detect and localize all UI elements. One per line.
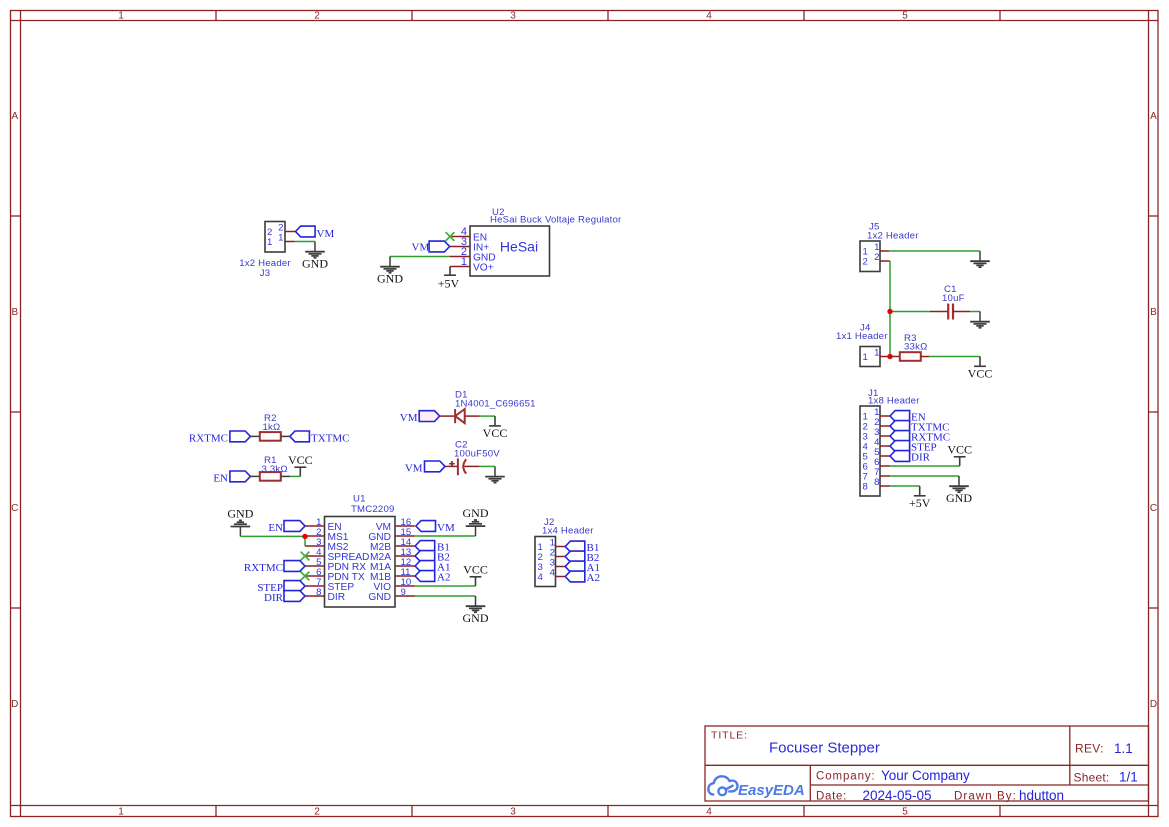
svg-text:DIR: DIR	[911, 451, 931, 463]
svg-text:4: 4	[706, 807, 712, 818]
J5 pin 2 stub	[880, 260, 890, 262]
svg-text:VCC: VCC	[288, 453, 313, 467]
power VCC at U1 VIO	[470, 577, 482, 586]
svg-text:VCC: VCC	[483, 426, 508, 440]
ground at C2	[485, 466, 505, 482]
svg-text:1x8 Header: 1x8 Header	[868, 395, 920, 406]
U1 pin 13 M2A	[395, 555, 415, 557]
net flag STEP at J1 pin 4	[890, 441, 910, 452]
U1 pin 2 MS1	[305, 535, 325, 537]
svg-text:Sheet:: Sheet:	[1074, 770, 1110, 784]
wire R2 to TXTMC	[281, 435, 290, 437]
svg-text:J3: J3	[260, 268, 271, 279]
svg-text:9: 9	[401, 587, 406, 598]
svg-text:HeSai: HeSai	[500, 239, 538, 255]
svg-text:GND: GND	[227, 507, 253, 521]
svg-text:A2: A2	[587, 572, 600, 584]
net flag A1 at J2	[565, 561, 585, 572]
U2 pin 1 VO+	[450, 266, 470, 268]
junction node VM/C1	[887, 309, 892, 314]
svg-text:1/1: 1/1	[1119, 770, 1138, 785]
no-connect X on U2 pin 4	[446, 232, 455, 241]
wire J1 pin6 to VCC	[890, 465, 960, 467]
J2 pin 3	[556, 566, 566, 568]
power VCC at D1	[489, 416, 501, 426]
U1 pin 4 SPREAD	[305, 555, 325, 557]
no-connect X U1 pin4	[301, 552, 310, 561]
J1 pin 6	[880, 465, 890, 467]
wire R1 to VCC	[281, 475, 290, 477]
U1 pin 8 DIR	[305, 595, 325, 597]
D1 symbol	[455, 409, 465, 423]
wire U1 pin9 GND to ground	[414, 595, 475, 597]
svg-text:TITLE:: TITLE:	[711, 730, 748, 742]
U1 pin 6 PDN TX	[305, 575, 325, 577]
svg-text:VO+: VO+	[473, 263, 494, 274]
power VCC at R1	[294, 467, 306, 476]
svg-text:1: 1	[118, 11, 124, 22]
wire junction down to MS2	[304, 536, 306, 546]
svg-text:1x1 Header: 1x1 Header	[836, 331, 888, 342]
svg-text:REV:: REV:	[1075, 742, 1104, 756]
wire R3 to VCC	[929, 356, 980, 358]
net flag B1 at J2	[565, 541, 585, 552]
net flag B1	[415, 541, 435, 552]
svg-text:GND: GND	[368, 592, 391, 603]
C2 negative lead	[464, 465, 479, 467]
net flag RXTMC	[230, 431, 251, 442]
ground at J5 pin1	[970, 251, 990, 267]
net flag A2	[415, 571, 435, 582]
U1 pin 11 M1B	[395, 575, 415, 577]
left ground GND (U1 MS1/MS2)	[231, 520, 251, 536]
J1 pin 1	[880, 415, 890, 417]
wire EN to R1	[250, 475, 259, 477]
svg-text:2: 2	[874, 252, 879, 263]
svg-text:5: 5	[902, 11, 908, 22]
U1 pin 15 GND	[395, 535, 415, 537]
C2 plus sign	[449, 461, 454, 466]
net flag EN at J1 pin 1	[890, 411, 910, 422]
svg-text:C: C	[11, 503, 18, 514]
wire junction to C1	[890, 311, 930, 313]
wire J1 pin7 to GND	[890, 475, 959, 477]
ground GND above U1 pin15	[466, 520, 486, 536]
net flag EN at U1 pin1	[284, 521, 305, 532]
svg-text:GND: GND	[463, 611, 489, 625]
svg-text:5: 5	[902, 807, 908, 818]
svg-text:4: 4	[538, 572, 544, 583]
net flag B2	[415, 551, 435, 562]
ground GND at U2	[380, 257, 400, 273]
net flag STEP at U1 pin7	[284, 581, 305, 592]
U2 pin 2 GND	[450, 256, 470, 258]
svg-text:C: C	[1150, 503, 1157, 514]
J3 pin 2 stub	[285, 231, 296, 233]
net flag RXTMC at U1 pin5	[284, 561, 305, 572]
wire U1 pin10 VIO to VCC	[415, 585, 476, 587]
U1 pin 1 EN	[305, 525, 325, 527]
svg-text:3: 3	[510, 11, 516, 22]
title block	[705, 726, 1149, 801]
svg-text:100uF50V: 100uF50V	[454, 448, 500, 459]
svg-text:Company:: Company:	[816, 771, 876, 783]
ground GND at J1	[949, 476, 969, 492]
wire C2 to GND	[480, 465, 495, 467]
EasyEDA logo	[708, 776, 737, 795]
svg-text:10uF: 10uF	[942, 293, 965, 304]
svg-text:hdutton: hdutton	[1019, 788, 1064, 803]
U1 pin 7 STEP	[305, 585, 325, 587]
svg-text:DIR: DIR	[264, 592, 284, 604]
svg-text:D: D	[1150, 699, 1157, 710]
wire J3 pin1 to GND	[295, 241, 316, 243]
svg-text:1: 1	[267, 237, 272, 248]
C2 positive lead	[445, 465, 457, 467]
J2 pin 1	[556, 546, 566, 548]
svg-text:EN: EN	[268, 522, 283, 534]
svg-text:VM: VM	[405, 462, 423, 474]
net flag A2 at J2	[565, 571, 585, 582]
wire J1 pin8 to +5V	[890, 485, 920, 487]
svg-text:VM: VM	[400, 412, 418, 424]
C2 plates	[457, 458, 459, 475]
svg-text:GND: GND	[377, 272, 403, 286]
U1 pin 3 MS2	[305, 545, 325, 547]
J1 pin 5	[880, 455, 890, 457]
net flag VM at C2	[425, 461, 446, 472]
power VCC at J1	[954, 457, 966, 466]
svg-text:+5V: +5V	[438, 277, 460, 291]
svg-text:EasyEDA: EasyEDA	[738, 782, 805, 799]
svg-text:VM: VM	[412, 242, 430, 254]
junction node MS1	[302, 534, 307, 539]
net flag VM at J3	[296, 226, 316, 237]
ground GND below U1 pin9	[466, 596, 486, 612]
U1 pin 12 M1A	[395, 565, 415, 567]
svg-text:1N4001_C696651: 1N4001_C696651	[455, 399, 536, 410]
svg-text:A: A	[1150, 111, 1157, 122]
J3 pin 1 stub	[285, 241, 295, 243]
J1 pin 2	[880, 425, 890, 427]
svg-text:Focuser Stepper: Focuser Stepper	[769, 739, 880, 756]
svg-text:33kΩ: 33kΩ	[904, 342, 927, 353]
svg-text:B: B	[1150, 307, 1157, 318]
svg-text:2024-05-05: 2024-05-05	[863, 788, 932, 803]
D1 anode lead	[440, 415, 455, 417]
svg-text:8: 8	[316, 587, 321, 598]
U1 pin 14 M2B	[395, 545, 415, 547]
svg-text:1: 1	[118, 807, 124, 818]
svg-text:+5V: +5V	[909, 496, 931, 510]
svg-text:1x4 Header: 1x4 Header	[542, 525, 594, 536]
svg-text:1: 1	[874, 347, 879, 358]
svg-text:TMC2209: TMC2209	[351, 504, 395, 515]
net flag DIR at J1 pin 5	[890, 451, 910, 462]
U1 pin 5 PDN RX	[305, 565, 325, 567]
wire J5 pin1 to GND	[889, 250, 980, 252]
svg-text:4: 4	[550, 567, 556, 578]
svg-text:TXTMC: TXTMC	[311, 432, 350, 444]
svg-text:A: A	[11, 111, 18, 122]
power +5V at U2 pin 1	[444, 267, 456, 276]
J5 pin 1 stub	[880, 250, 889, 252]
svg-text:B: B	[11, 307, 18, 318]
net flag VM at D1 (pink fill)	[419, 411, 440, 422]
U2 pin 4 EN	[450, 236, 470, 238]
svg-text:1: 1	[278, 232, 283, 243]
net flag VM at U2 pin 3	[429, 241, 450, 252]
wire U2 GND pin to ground	[390, 256, 450, 258]
svg-text:A2: A2	[437, 571, 450, 583]
power +5V at J1	[914, 486, 926, 496]
svg-text:D: D	[11, 699, 18, 710]
net flag B2 at J2	[565, 551, 585, 562]
wire J5 pin2 down to junctions	[889, 261, 891, 357]
wire D1 to VCC	[480, 415, 495, 417]
svg-text:3: 3	[510, 807, 516, 818]
J1 pin 4	[880, 445, 890, 447]
svg-text:8: 8	[874, 477, 879, 488]
svg-text:2: 2	[314, 11, 320, 22]
net flag VM at U1 pin16	[416, 521, 436, 532]
net flag RXTMC at J1 pin 3	[890, 431, 910, 442]
J1 pin 3	[880, 435, 890, 437]
svg-text:HeSai Buck Voltaje Regulator: HeSai Buck Voltaje Regulator	[490, 215, 622, 226]
svg-text:RXTMC: RXTMC	[244, 562, 283, 574]
svg-text:GND: GND	[302, 257, 328, 271]
svg-text:VCC: VCC	[463, 562, 488, 576]
connector J3 1x2 Header	[265, 222, 285, 253]
svg-text:GND: GND	[463, 506, 489, 520]
D1 cathode lead	[465, 415, 480, 417]
ground GND at J3	[305, 242, 325, 258]
U1 pin 9 GND	[395, 595, 415, 597]
wire GND to MS1 junction	[240, 535, 305, 537]
svg-text:RXTMC: RXTMC	[189, 432, 228, 444]
svg-text:U1: U1	[353, 494, 366, 505]
svg-text:VM: VM	[437, 522, 455, 534]
svg-text:1x2 Header: 1x2 Header	[867, 231, 919, 242]
svg-text:1.1: 1.1	[1114, 741, 1133, 756]
U2 pin 3 IN+	[450, 246, 470, 248]
power VCC at R3	[974, 357, 986, 367]
junction node J4/R3	[887, 354, 892, 359]
svg-text:GND: GND	[946, 491, 972, 505]
wire RXTMC to R2	[250, 435, 259, 437]
U1 pin 16 VM	[395, 525, 415, 527]
svg-text:8: 8	[863, 482, 868, 493]
J1 pin 7	[880, 475, 890, 477]
svg-text:2: 2	[314, 807, 320, 818]
no-connect X U1 pin6	[301, 572, 310, 581]
wire U1 pin15 to GND	[415, 535, 476, 537]
svg-text:EN: EN	[213, 473, 228, 485]
svg-text:Drawn By:: Drawn By:	[954, 791, 1017, 803]
U1 pin 10 VIO	[395, 585, 415, 587]
net flag TXTMC	[290, 431, 310, 442]
svg-text:VCC: VCC	[947, 442, 972, 456]
svg-text:Date:: Date:	[816, 791, 847, 803]
net flag DIR at U1 pin8	[284, 591, 305, 602]
svg-text:DIR: DIR	[328, 592, 346, 603]
svg-text:Your Company: Your Company	[881, 768, 970, 783]
svg-text:VCC: VCC	[968, 366, 993, 380]
J4 pin 1 stub	[880, 356, 890, 358]
svg-text:1: 1	[461, 256, 467, 268]
net flag A1	[415, 561, 435, 572]
J1 pin 8	[880, 485, 890, 487]
wire C1 to GND	[970, 311, 980, 313]
J2 pin 2	[556, 556, 566, 558]
svg-text:2: 2	[863, 257, 868, 268]
J2 pin 4	[556, 576, 566, 578]
svg-text:VM: VM	[317, 228, 335, 240]
net flag TXTMC at J1 pin 2	[890, 421, 910, 432]
svg-text:4: 4	[706, 11, 712, 22]
ground at C1	[970, 312, 990, 328]
svg-text:1: 1	[863, 352, 868, 363]
net flag EN	[230, 471, 251, 482]
